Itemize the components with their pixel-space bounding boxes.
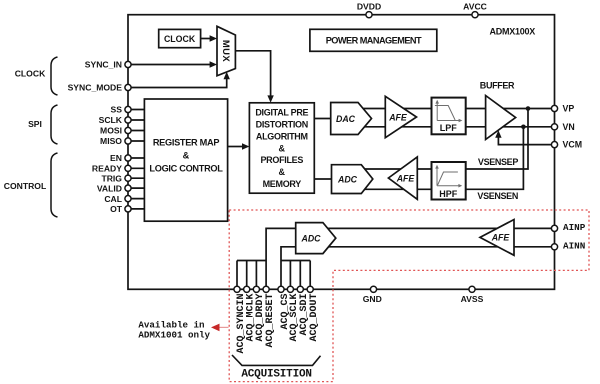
box REGISTER MAP and LOGIC CONTROL bbox=[144, 99, 227, 221]
svg-text:MUX: MUX bbox=[220, 40, 231, 63]
svg-text:TRIG: TRIG bbox=[101, 173, 122, 183]
svg-text:OT: OT bbox=[110, 204, 123, 214]
svg-text:CAL: CAL bbox=[104, 194, 122, 204]
svg-text:ADC: ADC bbox=[300, 233, 321, 243]
svg-text:VSENSEN: VSENSEN bbox=[477, 191, 518, 201]
power terminal AVCC bbox=[463, 1, 487, 17]
box DIGITAL PRE DISTORTION ALGORITHM PROFILES MEMORY bbox=[249, 103, 314, 193]
svg-text:&: & bbox=[279, 143, 286, 153]
mux MUX bbox=[217, 26, 235, 76]
svg-text:SS: SS bbox=[111, 105, 123, 115]
svg-text:DVDD: DVDD bbox=[357, 1, 381, 11]
pin terminal MOSI circle bbox=[125, 127, 131, 133]
wire CLOCK to MUX bbox=[201, 35, 217, 41]
acquisition dashed boundary bbox=[229, 210, 589, 382]
high-pass filter HPF bbox=[432, 162, 466, 200]
pin terminal TRIG circle bbox=[125, 175, 131, 181]
svg-text:CLOCK: CLOCK bbox=[164, 34, 196, 44]
brace SPI group bbox=[51, 105, 58, 144]
pin AINP bbox=[551, 222, 585, 233]
svg-text:VALID: VALID bbox=[97, 183, 122, 193]
op-amp AFE acquisition bbox=[480, 220, 514, 256]
svg-text:MISO: MISO bbox=[100, 136, 122, 146]
box CLOCK oscillator bbox=[159, 29, 201, 47]
svg-text:AVCC: AVCC bbox=[463, 1, 487, 11]
pin ACQ_DRDY bbox=[253, 261, 266, 342]
buffer amplifier bbox=[480, 81, 516, 140]
wire MUX output to DPD box bbox=[235, 51, 273, 103]
pin terminal SCLK circle bbox=[125, 117, 131, 123]
svg-text:ADC: ADC bbox=[337, 174, 358, 184]
power terminal DVDD bbox=[357, 1, 381, 17]
pin VALID bbox=[97, 183, 145, 193]
svg-text:BUFFER: BUFFER bbox=[480, 81, 515, 91]
junction node VP bbox=[526, 106, 531, 111]
wire REGISTER MAP to DPD bbox=[228, 143, 250, 149]
pin SCLK bbox=[99, 115, 145, 125]
svg-text:EN: EN bbox=[110, 153, 122, 163]
pin ACQ_SCLK bbox=[287, 261, 300, 342]
svg-text:AFE: AFE bbox=[396, 173, 416, 183]
svg-text:SPI: SPI bbox=[28, 119, 42, 129]
svg-text:ACQ_RESET: ACQ_RESET bbox=[265, 294, 276, 348]
pin terminal OT circle bbox=[125, 206, 131, 212]
pin terminal SYNC_MODE circle bbox=[125, 84, 131, 90]
wire ADC main to DPD bbox=[314, 178, 331, 180]
pin VCM bbox=[551, 140, 582, 150]
wire VSENSEN feedback from VN node to HPF bbox=[352, 127, 523, 190]
svg-text:AFE: AFE bbox=[388, 112, 408, 122]
wire SYNC_MODE to MUX select bbox=[128, 72, 230, 88]
annotation Available in ADMX1001 only bbox=[138, 320, 210, 341]
svg-text:DIGITAL PRE: DIGITAL PRE bbox=[255, 108, 308, 118]
pin VN bbox=[551, 122, 574, 132]
adc ADC acquisition bbox=[296, 223, 336, 254]
pin terminal CAL circle bbox=[125, 196, 131, 202]
pin READY bbox=[92, 164, 144, 174]
svg-text:PROFILES: PROFILES bbox=[260, 155, 303, 165]
svg-text:DAC: DAC bbox=[336, 114, 356, 124]
svg-text:READY: READY bbox=[92, 164, 122, 174]
wire acquisition ADC to AINN bbox=[281, 247, 555, 261]
dac DAC bbox=[331, 103, 372, 135]
brace CLOCK group bbox=[51, 57, 58, 95]
wire DAC to VN differential bottom bbox=[352, 126, 555, 128]
pin OT bbox=[110, 204, 144, 214]
pin CAL bbox=[104, 194, 144, 204]
svg-text:HPF: HPF bbox=[439, 189, 458, 199]
svg-text:ACQ_DOUT: ACQ_DOUT bbox=[309, 294, 320, 342]
svg-text:MEMORY: MEMORY bbox=[263, 179, 302, 189]
svg-text:&: & bbox=[279, 167, 286, 177]
svg-text:REGISTER MAP: REGISTER MAP bbox=[153, 138, 220, 148]
svg-text:SCLK: SCLK bbox=[99, 115, 123, 125]
pin terminal SYNC_IN circle bbox=[125, 61, 131, 67]
svg-text:CLOCK: CLOCK bbox=[15, 69, 46, 79]
pin MOSI bbox=[100, 126, 144, 136]
op-amp AFE transmit bbox=[385, 96, 416, 137]
bus ACQ group2 bbox=[281, 260, 310, 262]
pin ACQ_CS bbox=[278, 261, 291, 330]
svg-text:&: & bbox=[183, 151, 190, 161]
svg-text:DISTORTION: DISTORTION bbox=[256, 120, 308, 130]
low-pass filter LPF bbox=[432, 98, 466, 135]
op-amp AFE receive bbox=[388, 157, 417, 199]
pin terminal SS circle bbox=[125, 106, 131, 112]
pin AINN bbox=[551, 241, 585, 252]
brace acquisition group bbox=[232, 355, 321, 365]
pin terminal EN circle bbox=[125, 155, 131, 161]
svg-text:ADMX1001 only: ADMX1001 only bbox=[138, 330, 210, 341]
svg-text:LOGIC CONTROL: LOGIC CONTROL bbox=[149, 164, 223, 174]
svg-text:AINP: AINP bbox=[563, 222, 586, 233]
wire SYNC_IN to MUX bbox=[128, 61, 217, 67]
svg-text:VP: VP bbox=[563, 104, 575, 114]
pin SYNC_MODE bbox=[68, 83, 123, 93]
pin EN bbox=[110, 153, 144, 163]
ground terminal AVSS bbox=[461, 286, 484, 304]
chip boundary ADMX100X bbox=[128, 15, 555, 290]
wire acquisition ADC to AINP bbox=[266, 228, 554, 260]
pin ACQ_MCLK bbox=[244, 261, 257, 342]
wire VSENSEP feedback from VP node to HPF bbox=[352, 109, 528, 170]
pin ACQ_SDI bbox=[297, 261, 310, 336]
svg-text:ADMX100X: ADMX100X bbox=[489, 27, 535, 37]
brace CONTROL group bbox=[51, 153, 58, 217]
wire VCM to buffer bias bbox=[495, 130, 554, 144]
svg-text:POWER MANAGEMENT: POWER MANAGEMENT bbox=[326, 36, 422, 46]
svg-text:AINN: AINN bbox=[563, 241, 585, 252]
svg-text:MOSI: MOSI bbox=[100, 126, 122, 136]
svg-text:AFE: AFE bbox=[491, 233, 511, 243]
pin MISO bbox=[100, 136, 144, 146]
pin ACQ_RESET bbox=[263, 261, 276, 348]
svg-text:CONTROL: CONTROL bbox=[4, 181, 47, 191]
ground terminal GND bbox=[363, 286, 382, 304]
pin terminal MISO circle bbox=[125, 138, 131, 144]
pin terminal VALID circle bbox=[125, 185, 131, 191]
svg-text:SYNC_MODE: SYNC_MODE bbox=[68, 83, 123, 93]
wire DAC to VP differential top bbox=[352, 108, 555, 110]
adc ADC main receive bbox=[332, 165, 373, 194]
svg-text:VN: VN bbox=[563, 122, 575, 132]
svg-text:VSENSEP: VSENSEP bbox=[478, 157, 518, 167]
red arrow annotation pointer bbox=[211, 324, 229, 332]
svg-text:ALGORITHM: ALGORITHM bbox=[256, 131, 308, 141]
svg-text:AVSS: AVSS bbox=[461, 294, 484, 304]
pin SYNC_IN bbox=[85, 60, 122, 70]
junction node VN bbox=[521, 125, 526, 130]
svg-text:GND: GND bbox=[363, 294, 382, 304]
pin TRIG bbox=[101, 173, 144, 183]
svg-text:ACQUISITION: ACQUISITION bbox=[241, 369, 311, 381]
pin SS bbox=[111, 105, 145, 115]
box POWER MANAGEMENT bbox=[310, 29, 437, 51]
pin ACQ_SYNCIN bbox=[234, 261, 247, 354]
svg-text:VCM: VCM bbox=[563, 140, 583, 150]
pin ACQ_DOUT bbox=[307, 261, 320, 342]
svg-text:SYNC_IN: SYNC_IN bbox=[85, 60, 122, 70]
svg-text:LPF: LPF bbox=[440, 123, 458, 133]
wire DPD to DAC bbox=[314, 118, 330, 120]
pin VP bbox=[551, 104, 574, 114]
bus ACQ group1 bbox=[237, 260, 266, 262]
pin terminal READY circle bbox=[125, 165, 131, 171]
